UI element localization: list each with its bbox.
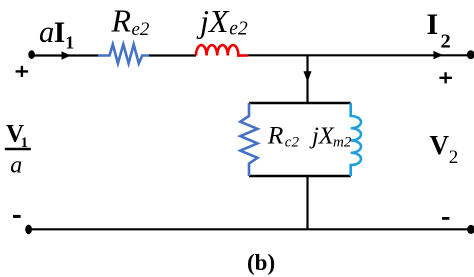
current arrow aI1 <box>62 51 71 59</box>
inductor jXe2 <box>196 45 248 55</box>
svg-text:e2: e2 <box>229 19 248 40</box>
wire top right segment <box>248 54 470 56</box>
svg-text:c2: c2 <box>285 135 300 151</box>
svg-text:jX: jX <box>309 123 335 150</box>
wire vertical stem upper <box>306 56 308 104</box>
plus sign left <box>16 66 29 77</box>
svg-text:I: I <box>427 8 439 41</box>
plus sign right <box>439 72 452 83</box>
wire bottom <box>29 228 471 230</box>
svg-text:1: 1 <box>65 33 74 53</box>
current arrow I2 <box>434 51 444 59</box>
node dot top-left terminal <box>28 50 35 59</box>
svg-text:a: a <box>10 152 22 178</box>
wire box bottom bar <box>249 175 351 177</box>
wire vertical stem lower <box>306 176 308 229</box>
resistor Re2 <box>98 44 149 63</box>
wire between resistor and inductor <box>149 54 196 56</box>
wire box top bar <box>249 102 351 104</box>
svg-text:R: R <box>267 121 284 150</box>
svg-text:a: a <box>39 15 54 49</box>
node dot bottom-left terminal <box>25 225 32 235</box>
inductor jXm2 <box>351 103 361 176</box>
svg-text:I: I <box>54 17 65 49</box>
svg-text:2: 2 <box>449 147 459 168</box>
svg-text:e2: e2 <box>132 19 150 40</box>
node dot top-right terminal <box>467 50 474 59</box>
svg-text:V: V <box>430 130 450 160</box>
svg-text:R: R <box>111 2 132 38</box>
node dot bottom-right terminal <box>467 225 474 234</box>
wire top left segment <box>32 54 98 56</box>
svg-text:2: 2 <box>441 30 451 52</box>
svg-text:(b): (b) <box>247 250 275 275</box>
svg-text:m2: m2 <box>333 135 352 151</box>
arrow down on stem <box>303 71 311 82</box>
minus sign right <box>442 217 449 220</box>
minus sign left <box>13 215 21 218</box>
svg-text:jX: jX <box>196 3 230 39</box>
resistor Rc2 <box>240 103 257 176</box>
